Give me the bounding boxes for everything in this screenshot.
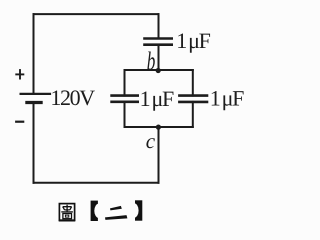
wire left lower — [33, 103, 35, 183]
battery V1 long plate (+) — [20, 93, 52, 95]
svg-text:1μF: 1μF — [176, 28, 210, 53]
capacitor C3 top plate — [178, 94, 208, 97]
plus sign of battery — [15, 69, 24, 79]
capacitor C3 bottom plate — [178, 101, 208, 104]
node b junction dot — [156, 68, 161, 73]
wire bottom — [34, 182, 159, 184]
caption glyph: Chinese character ER (two) — [110, 206, 122, 211]
svg-text:c: c — [146, 129, 156, 153]
capacitor C2 bottom plate — [110, 101, 139, 104]
wire top — [34, 13, 159, 15]
svg-text:1μF: 1μF — [210, 85, 244, 110]
svg-text:b: b — [147, 47, 156, 76]
wire left upper — [33, 14, 35, 94]
caption glyph: Chinese character TU (figure) — [59, 204, 76, 221]
wire node c to bottom — [158, 127, 160, 183]
svg-text:1μF: 1μF — [140, 86, 174, 111]
wire C1 to node b — [158, 45, 160, 70]
wire right branch lower — [192, 102, 194, 127]
minus sign of battery — [15, 121, 24, 123]
caption glyph: left lenticular bracket — [91, 201, 104, 221]
svg-text:120V: 120V — [50, 85, 95, 110]
wire right upper drop — [158, 14, 160, 38]
node c junction dot — [156, 125, 161, 130]
capacitor C1 bottom plate — [143, 43, 173, 46]
wire parallel box top — [125, 69, 193, 71]
wire left branch lower — [124, 102, 126, 127]
battery V1 short plate (-) — [25, 101, 42, 104]
wire right branch upper — [192, 70, 194, 96]
wire left branch upper — [124, 70, 126, 96]
wire parallel box bottom — [125, 126, 193, 128]
capacitor C2 top plate — [110, 94, 139, 97]
caption glyph: right lenticular bracket — [129, 200, 142, 220]
capacitor C1 top plate — [143, 37, 173, 40]
